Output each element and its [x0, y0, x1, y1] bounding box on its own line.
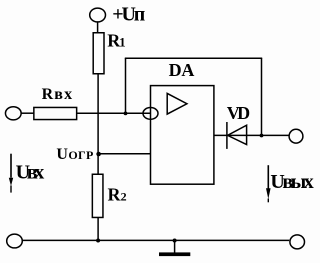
node Uogr junction [96, 152, 101, 157]
node feedback-input junction [124, 112, 128, 116]
op-amp DA box [151, 86, 214, 185]
resistor Rvx [34, 107, 77, 119]
arrow Uvyx [268, 165, 270, 188]
arrow Uvx [10, 154, 12, 178]
wire ground stem [174, 240, 176, 252]
node diode output junction [260, 134, 264, 138]
svg-text:Uвых: Uвых [270, 171, 313, 193]
resistor R1 [93, 33, 104, 74]
wire op-amp output to output terminal [214, 134, 289, 136]
terminal input left [5, 107, 21, 120]
wire feedback right vertical [261, 58, 263, 135]
wire feedback top rail [125, 57, 262, 59]
svg-text:DA: DA [169, 60, 195, 80]
svg-text:Rвх: Rвх [42, 86, 73, 103]
node R2 bottom junction [96, 239, 100, 243]
svg-text:+Uп: +Uп [112, 4, 145, 26]
op-amp triangle [167, 93, 187, 114]
wire Uogr to op-amp [98, 153, 150, 155]
svg-text:UОГР: UОГР [56, 146, 93, 163]
terminal +Un [90, 8, 106, 22]
diode VD triangle [228, 125, 247, 144]
terminal output right [289, 129, 303, 143]
svg-text:VD: VD [227, 103, 250, 123]
wire R2 bottom to rail [97, 217, 99, 240]
wire bottom rail [22, 239, 289, 241]
diode VD cathode bar [226, 122, 228, 149]
wire Rvx to op-amp input [77, 112, 151, 114]
terminal bottom left [7, 234, 23, 248]
terminal bottom right [290, 235, 305, 249]
svg-text:Uвх: Uвх [16, 161, 45, 183]
ground bar [159, 252, 190, 256]
node ground junction [173, 239, 177, 243]
wire input terminal to Rvx [21, 112, 34, 114]
op-amp input circle [143, 108, 158, 120]
wire feedback left vertical [125, 58, 127, 113]
wire top terminal to R1 [97, 22, 99, 33]
resistor R2 [92, 174, 103, 217]
wire R1 bottom to R2 top [97, 74, 99, 175]
